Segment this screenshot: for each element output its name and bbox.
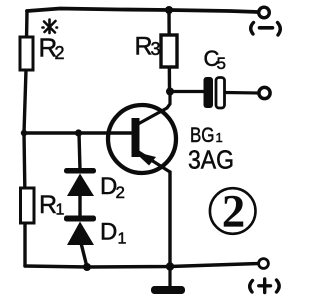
wire ground stub (168, 267, 171, 288)
node emitter-ground (166, 262, 174, 270)
svg-text:2: 2 (116, 183, 125, 202)
wire C5 right (225, 91, 259, 95)
svg-text:2: 2 (55, 43, 65, 63)
wire R3 vertical (167, 10, 171, 91)
capacitor C5 plate right (216, 78, 225, 109)
resistor R1 (21, 188, 35, 223)
diode D1 cathode bar (64, 216, 96, 222)
wire top rail (27, 9, 258, 13)
diode D1 triangle (67, 222, 94, 246)
wire diode branch lower (81, 243, 87, 267)
terminal capacitor out (259, 87, 270, 98)
node base-left (21, 130, 27, 136)
diode D2 triangle (67, 174, 94, 197)
wire collector (138, 92, 170, 124)
transistor base bar (132, 118, 140, 157)
wire diode branch middle (78, 193, 81, 218)
wire emitter diagonal (137, 151, 170, 172)
wire base (24, 131, 131, 134)
ground (151, 286, 185, 294)
svg-text:5: 5 (217, 54, 226, 73)
svg-text:1: 1 (216, 130, 223, 145)
svg-text:2: 2 (222, 186, 246, 238)
svg-text:3AG: 3AG (188, 145, 234, 175)
capacitor C5 plate left (204, 77, 214, 108)
svg-text:1: 1 (118, 231, 127, 248)
transistor emitter arrow (134, 152, 156, 166)
transistor Q1 circle (108, 105, 176, 173)
svg-text:R: R (39, 191, 57, 219)
resistor R3 (161, 35, 177, 67)
wire emitter vertical (168, 172, 171, 266)
wire left rail (24, 11, 27, 266)
resistor R2 (20, 37, 33, 70)
svg-text:1: 1 (56, 202, 65, 219)
diode D2 cathode bar (64, 168, 96, 174)
node top-R3 (165, 6, 173, 14)
terminal minus (259, 7, 270, 18)
wire diode branch upper (79, 133, 80, 170)
label minus terminal (251, 23, 281, 36)
wire bottom rail (25, 264, 259, 268)
svg-text:3: 3 (151, 39, 161, 59)
node base-diode (75, 129, 82, 136)
terminal plus (259, 259, 269, 269)
figure number 2 circle (210, 188, 256, 234)
node diode-bottom (83, 263, 91, 271)
label plus terminal (250, 279, 279, 293)
wire C5 left (170, 90, 204, 93)
asterisk mark (43, 20, 58, 34)
node collector-C5 (166, 88, 174, 96)
svg-text:D: D (100, 219, 117, 246)
